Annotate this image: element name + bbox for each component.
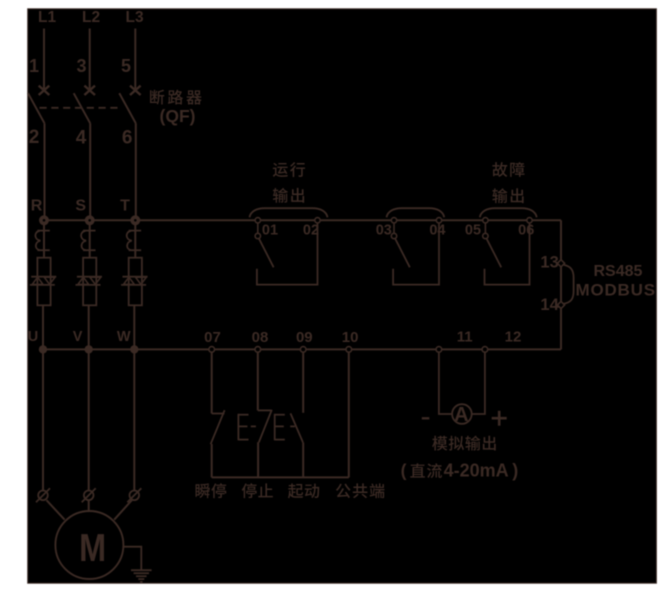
wire: breaker pole 2 to node <box>89 123 91 221</box>
CT coil phase T <box>129 230 141 232</box>
K2 output contact moving contact circle <box>391 233 396 238</box>
svg-text:RS485: RS485 <box>594 263 643 280</box>
wire: U terminal to motor <box>47 500 65 520</box>
thyristor pair (anti-parallel SCR) phase S <box>77 276 102 278</box>
thyristor module phase T rectangle <box>129 258 142 306</box>
NC stop button contact (08) <box>258 409 272 411</box>
wire: 07 contact to common bar <box>211 444 213 478</box>
svg-text:W: W <box>117 329 131 345</box>
CT coil phase S <box>83 230 95 232</box>
wire: top bus R-S-T to terminal 06 corner <box>44 219 561 221</box>
thyristor module phase R rectangle <box>37 258 50 306</box>
wire: module phase S to node V <box>88 305 90 349</box>
motor M circle <box>55 511 123 579</box>
svg-text:01: 01 <box>262 222 278 238</box>
svg-text:4: 4 <box>76 127 87 148</box>
label 运行 (run) <box>273 162 305 177</box>
button actuator E (stop) <box>237 414 239 441</box>
K2 output contact blade <box>395 238 410 267</box>
terminal 12 circle <box>482 347 488 353</box>
wire: breaker pole 1 to node <box>44 123 46 221</box>
svg-text:M: M <box>79 527 106 570</box>
terminal 01 circle <box>255 218 260 223</box>
wire: 09 contact to common bar <box>302 443 304 478</box>
terminal 09 circle <box>300 347 306 353</box>
terminal 05 circle <box>483 218 488 223</box>
svg-text:10: 10 <box>342 329 359 346</box>
label 瞬停 (instant stop) <box>196 483 227 498</box>
svg-text:02: 02 <box>303 222 319 238</box>
wire: terminal 12 to ammeter <box>472 349 485 414</box>
svg-text:04: 04 <box>429 222 445 238</box>
label 输出 (output) <box>273 188 304 203</box>
wire: K1 run output contact lower path <box>257 223 318 285</box>
svg-text:08: 08 <box>252 329 269 346</box>
svg-text:07: 07 <box>204 329 221 346</box>
NC mushroom button contact (07) <box>212 413 225 415</box>
svg-text:6: 6 <box>122 127 133 148</box>
wire: V terminal to motor <box>88 501 90 511</box>
breaker QF pole 3 contact X <box>130 86 141 95</box>
label 断路器 (circuit breaker) <box>150 90 202 105</box>
wire: W to motor terminal <box>133 349 135 490</box>
svg-text:MODBUS: MODBUS <box>576 281 656 300</box>
K1 run output contact bracket arch <box>250 208 328 217</box>
svg-text:L1: L1 <box>38 9 56 26</box>
label 停止 (stop) <box>242 483 273 498</box>
node S junction <box>85 215 95 225</box>
terminal 02 circle <box>315 218 320 223</box>
actuator link dash (start) <box>290 425 295 427</box>
svg-text:R: R <box>31 198 43 215</box>
breaker QF pole 1 contact X <box>39 86 50 95</box>
button actuator E (start) <box>274 414 276 441</box>
terminal 06 circle <box>527 218 532 223</box>
motor terminal U slashed circle <box>38 491 48 501</box>
svg-text:(: ( <box>401 460 407 480</box>
svg-text:T: T <box>120 198 130 215</box>
svg-text:L3: L3 <box>126 9 144 26</box>
svg-text:03: 03 <box>376 222 392 238</box>
wire: K2 output contact stem <box>393 223 395 234</box>
terminal 03 circle <box>391 218 396 223</box>
terminal 14 diamond <box>557 301 564 308</box>
svg-text:4-20mA: 4-20mA <box>444 460 509 480</box>
CT coil phase R <box>37 230 49 232</box>
thyristor pair (anti-parallel SCR) phase R <box>31 276 56 278</box>
thyristor pair (anti-parallel SCR) phase T <box>123 276 148 278</box>
svg-text:S: S <box>75 198 86 215</box>
svg-text:5: 5 <box>121 56 131 76</box>
motor terminal W slashed circle <box>130 491 140 501</box>
wire: incoming line L2 <box>89 29 91 91</box>
K3 fault output contact moving contact circle <box>483 233 488 238</box>
wire: K1 run output contact stem <box>257 223 259 234</box>
svg-text:2: 2 <box>29 127 40 148</box>
label 公共端 (common) <box>336 483 385 498</box>
svg-text:13: 13 <box>540 254 558 272</box>
wire: terminal 09 drop <box>302 349 304 412</box>
svg-text:06: 06 <box>518 222 534 238</box>
wire: module phase R to node U <box>42 305 44 349</box>
wire: module phase T to node W <box>133 305 135 349</box>
wire: W terminal to motor <box>114 500 132 520</box>
svg-text:09: 09 <box>296 329 313 346</box>
K3 fault output contact blade <box>486 238 501 267</box>
terminal 07 circle <box>209 347 215 353</box>
wire: K3 fault output contact stem <box>484 223 486 234</box>
svg-text:12: 12 <box>505 329 522 346</box>
breaker QF pole 3 blade <box>119 93 136 123</box>
wire: incoming line L3 <box>134 29 136 91</box>
node V junction <box>85 345 93 353</box>
wire: terminal 08 drop <box>257 349 259 410</box>
breaker QF pole 2 contact X <box>84 86 95 95</box>
node T junction <box>130 215 140 225</box>
label 模拟输出 (analog output) <box>432 436 496 451</box>
actuator link dash (stop) <box>251 425 256 427</box>
wire: terminal 07 drop <box>211 349 213 413</box>
wire: U to motor terminal <box>42 349 44 490</box>
wire: V to motor terminal <box>88 349 90 490</box>
label 输出 (output) <box>492 188 523 203</box>
svg-text:11: 11 <box>457 329 473 346</box>
svg-text:U: U <box>28 329 38 345</box>
thyristor module phase S rectangle <box>83 258 96 306</box>
wire: bottom bus U-V-W to terminal 12 corner <box>44 348 561 350</box>
K2 output contact bracket arch <box>387 208 445 217</box>
motor terminal V slashed circle <box>84 491 94 501</box>
terminal 13 diamond <box>557 260 564 267</box>
NO start button contact blade (09) <box>291 413 304 442</box>
wire: motor frame to earth <box>123 547 141 570</box>
wire: node S down through CT coil <box>89 220 91 257</box>
plus polarity sign <box>492 417 507 420</box>
minus polarity sign <box>422 417 430 419</box>
svg-text:(QF): (QF) <box>160 106 196 126</box>
wire: terminal 11 to ammeter <box>439 349 452 414</box>
wire: node T down through CT coil <box>134 220 136 257</box>
svg-text:): ) <box>512 460 518 480</box>
terminal 10 circle <box>346 347 352 353</box>
node U junction <box>39 345 47 353</box>
K1 run output contact blade <box>259 238 274 267</box>
label 起动 (start) <box>288 483 319 498</box>
svg-text:14: 14 <box>540 296 559 314</box>
svg-text:V: V <box>73 329 83 345</box>
wire: terminal 10 common drop <box>348 349 350 477</box>
node W junction <box>130 345 138 353</box>
wire: right vertical bus (13/14) <box>560 220 562 349</box>
wire: common bottom bar <box>212 476 349 478</box>
label 故障 (fault) <box>492 162 524 177</box>
earth ground symbol <box>131 569 152 571</box>
terminal 04 circle <box>436 218 441 223</box>
svg-text:A: A <box>454 404 468 426</box>
K3 fault output contact bracket arch <box>480 208 537 217</box>
svg-text:L2: L2 <box>82 9 100 26</box>
node R junction <box>39 215 49 225</box>
breaker QF pole 2 blade <box>74 93 91 123</box>
ammeter A1 circle <box>452 404 472 424</box>
wire: breaker pole 3 to node <box>135 123 137 221</box>
wire: node R down through CT coil <box>43 220 45 257</box>
wire: K3 fault output contact lower path <box>485 223 530 285</box>
svg-text:3: 3 <box>76 56 86 76</box>
breaker QF pole 1 blade <box>28 93 45 123</box>
svg-text:05: 05 <box>465 222 481 238</box>
terminal 08 circle <box>255 347 261 353</box>
label 直流 (DC) <box>410 463 442 478</box>
terminal 11 circle <box>436 347 442 353</box>
wire: K2 output contact lower path <box>393 223 439 285</box>
RS485 cable loop between 13 and 14 <box>564 265 574 304</box>
breaker QF linkage dashed line <box>40 107 119 109</box>
K1 run output contact moving contact circle <box>255 233 260 238</box>
wire: 08 contact to common bar <box>257 442 259 477</box>
svg-text:1: 1 <box>29 56 39 76</box>
wire: incoming line L1 <box>43 29 45 91</box>
